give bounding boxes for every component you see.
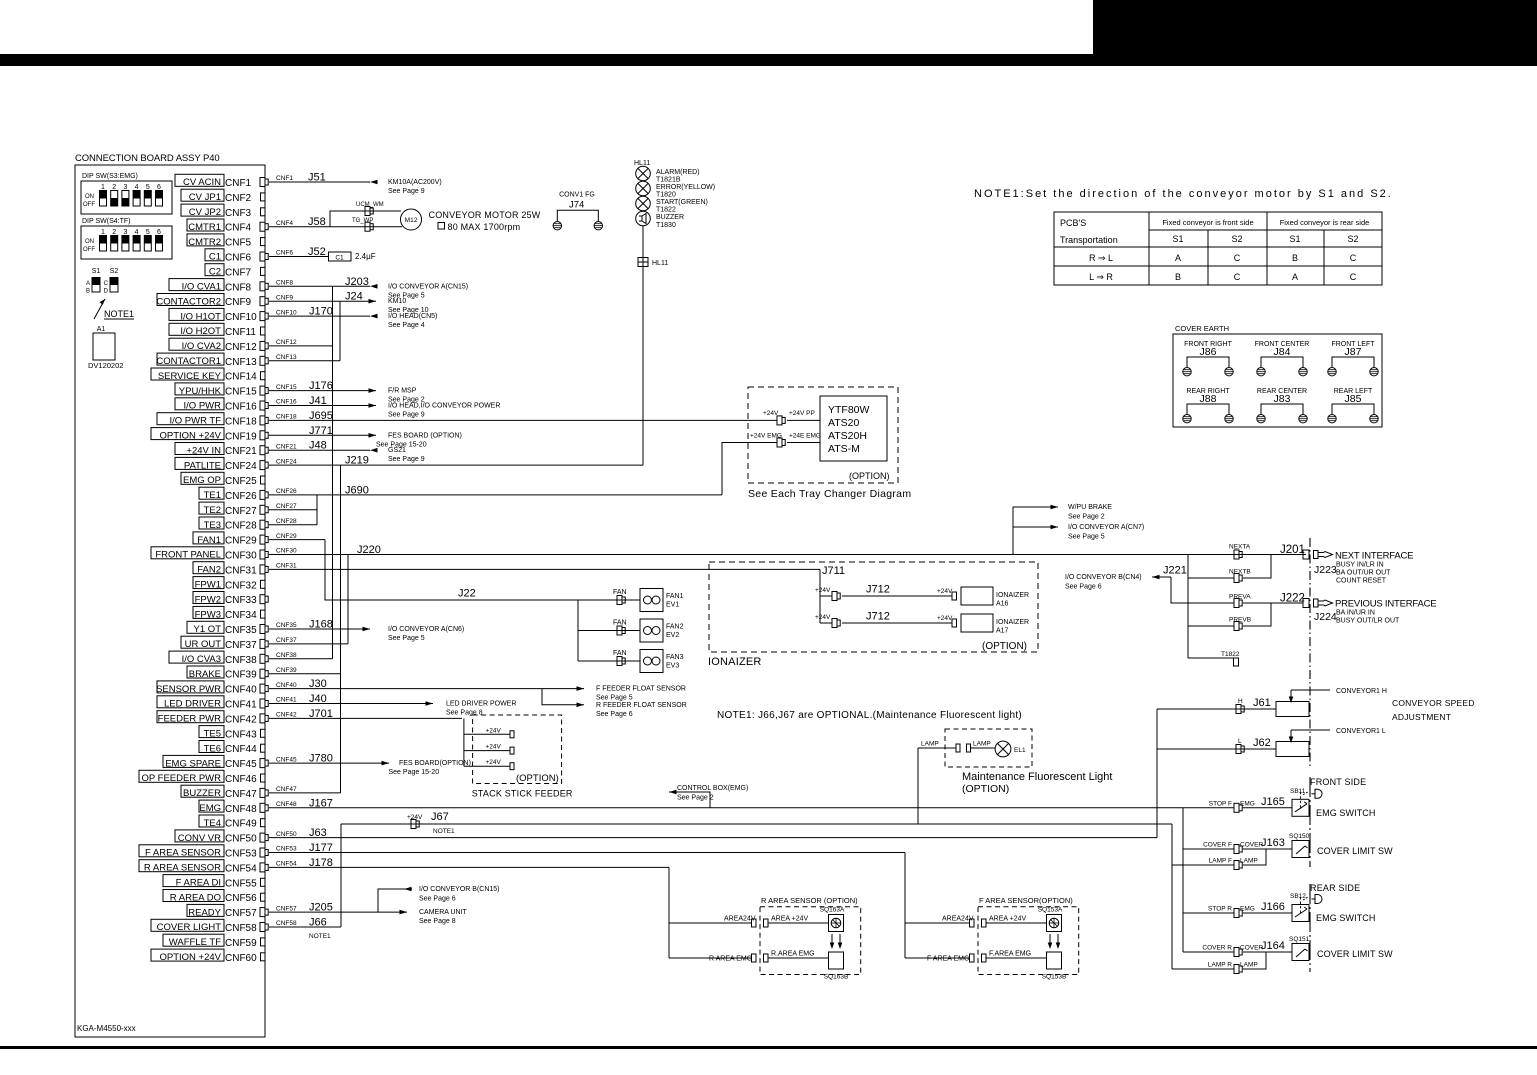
svg-text:J224: J224	[1314, 611, 1337, 623]
svg-text:CNF4: CNF4	[276, 220, 293, 227]
svg-text:YTF80W: YTF80W	[828, 404, 870, 416]
svg-text:See Page 6: See Page 6	[1065, 584, 1102, 591]
svg-text:CNF60: CNF60	[225, 953, 257, 964]
svg-text:J167: J167	[309, 797, 333, 809]
svg-text:OP FEEDER PWR: OP FEEDER PWR	[141, 773, 221, 784]
svg-text:+24V: +24V	[815, 587, 831, 594]
svg-text:TE3: TE3	[204, 520, 221, 531]
svg-text:LAMP: LAMP	[1240, 962, 1258, 969]
svg-text:EV1: EV1	[666, 602, 679, 609]
svg-text:T1830: T1830	[656, 222, 676, 229]
svg-text:EL1: EL1	[1014, 747, 1026, 754]
svg-text:CNF21: CNF21	[276, 443, 297, 450]
svg-text:See Page 9: See Page 9	[388, 412, 425, 419]
svg-text:J177: J177	[309, 842, 333, 854]
svg-text:I/O CONVEYOR A(CN15): I/O CONVEYOR A(CN15)	[388, 283, 468, 290]
svg-text:CNF26: CNF26	[276, 488, 297, 495]
svg-text:ATS20: ATS20	[828, 417, 859, 429]
svg-text:KGA-M4550-xxx: KGA-M4550-xxx	[77, 1024, 136, 1033]
svg-text:W/PU BRAKE: W/PU BRAKE	[1068, 504, 1112, 511]
svg-text:(OPTION): (OPTION)	[962, 783, 1009, 795]
svg-text:CNF26: CNF26	[225, 491, 257, 502]
svg-text:BUSY IN/LR IN: BUSY IN/LR IN	[1336, 562, 1384, 569]
svg-text:J83: J83	[1274, 393, 1291, 405]
svg-text:CNF6: CNF6	[225, 253, 252, 264]
svg-text:+24E EMG: +24E EMG	[789, 433, 821, 440]
svg-text:J222: J222	[1280, 593, 1305, 605]
svg-text:CNF8: CNF8	[225, 282, 252, 293]
svg-text:See Page 5: See Page 5	[388, 635, 425, 642]
svg-text:J165: J165	[1261, 796, 1285, 808]
svg-text:A: A	[1292, 272, 1298, 282]
svg-text:CNF30: CNF30	[225, 551, 257, 562]
svg-text:COVER F: COVER F	[1203, 842, 1232, 849]
svg-text:CONTACTOR2: CONTACTOR2	[156, 296, 221, 307]
svg-text:CV ACIN: CV ACIN	[183, 177, 221, 188]
svg-text:STOP R: STOP R	[1208, 906, 1232, 913]
svg-text:SQ153A: SQ153A	[1038, 907, 1063, 914]
svg-text:BRAKE: BRAKE	[189, 669, 221, 680]
svg-text:C: C	[1234, 272, 1241, 282]
svg-text:CNF57: CNF57	[225, 908, 257, 919]
svg-text:1: 1	[101, 229, 105, 236]
svg-text:CNF27: CNF27	[276, 503, 297, 510]
svg-text:FES BOARD(OPTION): FES BOARD(OPTION)	[399, 760, 471, 767]
svg-text:LAMP R: LAMP R	[1208, 962, 1232, 969]
svg-text:CNF32: CNF32	[225, 580, 257, 591]
svg-text:CNF30: CNF30	[276, 548, 297, 555]
svg-text:See Page 8: See Page 8	[419, 918, 456, 925]
svg-text:CNF29: CNF29	[276, 533, 297, 540]
svg-text:FAN: FAN	[613, 650, 627, 657]
svg-text:CNF53: CNF53	[276, 846, 297, 853]
svg-text:Transportation: Transportation	[1060, 235, 1118, 245]
svg-text:EV2: EV2	[666, 632, 679, 639]
svg-text:F AREA DI: F AREA DI	[176, 878, 221, 889]
svg-text:CONVEYOR MOTOR 25W: CONVEYOR MOTOR 25W	[429, 210, 541, 220]
svg-text:A16: A16	[996, 601, 1009, 608]
svg-text:CNF6: CNF6	[276, 250, 293, 257]
svg-text:A1: A1	[97, 326, 106, 333]
svg-text:See Page 2: See Page 2	[677, 795, 714, 802]
svg-text:CNF40: CNF40	[225, 685, 257, 696]
svg-text:J86: J86	[1200, 346, 1217, 358]
svg-text:OPTION +24V: OPTION +24V	[159, 952, 221, 963]
svg-text:C: C	[1234, 253, 1241, 263]
svg-text:CNF45: CNF45	[225, 759, 257, 770]
svg-text:CNF58: CNF58	[276, 920, 297, 927]
svg-text:I/O HEAD(CN5): I/O HEAD(CN5)	[388, 313, 437, 320]
svg-text:Y1 OT: Y1 OT	[194, 624, 222, 635]
svg-text:2: 2	[112, 184, 116, 191]
svg-text:F FEEDER FLOAT SENSOR: F FEEDER FLOAT SENSOR	[596, 686, 686, 693]
svg-text:See Page 15-20: See Page 15-20	[389, 769, 440, 776]
svg-text:CNF40: CNF40	[276, 682, 297, 689]
svg-text:BUZZER: BUZZER	[183, 788, 221, 799]
svg-text:3: 3	[123, 229, 127, 236]
svg-text:B: B	[1175, 272, 1181, 282]
svg-text:IONAIZER: IONAIZER	[996, 592, 1029, 599]
svg-text:I/O CVA3: I/O CVA3	[182, 654, 221, 665]
svg-text:NOTE1:Set the direction of the: NOTE1:Set the direction of the conveyor …	[974, 188, 1393, 200]
svg-text:NEXTB: NEXTB	[1229, 569, 1251, 576]
svg-text:COVER LIGHT: COVER LIGHT	[157, 922, 222, 933]
svg-text:EMG SWITCH: EMG SWITCH	[1316, 808, 1376, 818]
svg-text:I/O CONVEYOR A(CN6): I/O CONVEYOR A(CN6)	[388, 626, 464, 633]
svg-text:DIP SW(S4:TF): DIP SW(S4:TF)	[82, 218, 130, 225]
svg-text:CNF35: CNF35	[225, 625, 257, 636]
svg-text:D: D	[104, 289, 109, 295]
svg-text:J84: J84	[1274, 346, 1291, 358]
svg-text:J176: J176	[309, 380, 333, 392]
svg-text:CNF13: CNF13	[276, 354, 297, 361]
svg-text:CNF16: CNF16	[225, 402, 257, 413]
svg-text:80 MAX 1700rpm: 80 MAX 1700rpm	[448, 222, 521, 232]
svg-text:CNF38: CNF38	[276, 652, 297, 659]
svg-text:ADJUSTMENT: ADJUSTMENT	[1392, 712, 1451, 722]
svg-text:J170: J170	[309, 306, 333, 318]
svg-text:I/O CVA2: I/O CVA2	[182, 341, 221, 352]
svg-text:BA OUT/UR OUT: BA OUT/UR OUT	[1336, 570, 1391, 577]
svg-text:TG_WP: TG_WP	[352, 218, 373, 224]
svg-text:6: 6	[157, 229, 161, 236]
svg-text:See Page 6: See Page 6	[596, 711, 633, 718]
svg-text:T1822: T1822	[1221, 651, 1240, 658]
svg-text:CONTROL BOX(EMG): CONTROL BOX(EMG)	[677, 785, 748, 792]
svg-text:SB11: SB11	[1290, 788, 1306, 795]
svg-text:CNF50: CNF50	[225, 834, 257, 845]
svg-text:HL11: HL11	[652, 260, 668, 267]
svg-text:J205: J205	[309, 902, 333, 914]
svg-text:CNF15: CNF15	[225, 387, 257, 398]
svg-text:J712: J712	[866, 611, 890, 623]
svg-text:(OPTION): (OPTION)	[849, 471, 890, 481]
svg-text:START(GREEN): START(GREEN)	[656, 199, 708, 206]
svg-text:R AREA DO: R AREA DO	[170, 892, 221, 903]
svg-text:J66: J66	[309, 917, 327, 929]
svg-text:I/O CVA1: I/O CVA1	[182, 282, 221, 293]
svg-text:+24V: +24V	[937, 588, 953, 595]
svg-text:CNF50: CNF50	[276, 831, 297, 838]
svg-text:C1: C1	[209, 252, 221, 263]
svg-text:CV JP1: CV JP1	[189, 192, 221, 203]
svg-text:CNF41: CNF41	[225, 700, 257, 711]
svg-text:LAMP: LAMP	[973, 741, 991, 748]
svg-text:+24V PP: +24V PP	[789, 410, 815, 417]
svg-text:I/O CONVEYOR B(CN15): I/O CONVEYOR B(CN15)	[419, 886, 500, 893]
svg-text:C: C	[104, 281, 109, 287]
svg-text:CNF24: CNF24	[276, 458, 297, 465]
svg-text:CNF35: CNF35	[276, 622, 297, 629]
svg-text:WAFFLE TF: WAFFLE TF	[169, 937, 221, 948]
svg-text:CNF34: CNF34	[225, 610, 257, 621]
svg-text:CNF56: CNF56	[225, 893, 257, 904]
svg-text:J67: J67	[431, 811, 449, 823]
svg-text:CNF47: CNF47	[225, 789, 257, 800]
svg-text:Fixed conveyor is rear side: Fixed conveyor is rear side	[1280, 218, 1370, 227]
svg-text:I/O H2OT: I/O H2OT	[180, 326, 221, 337]
svg-text:ERROR(YELLOW): ERROR(YELLOW)	[656, 184, 715, 191]
svg-text:CNF53: CNF53	[225, 849, 257, 860]
svg-text:J201: J201	[1280, 544, 1305, 556]
svg-text:NEXTA: NEXTA	[1229, 544, 1251, 551]
svg-text:NOTE1: J66,J67 are OPTIONAL.(M: NOTE1: J66,J67 are OPTIONAL.(Maintenance…	[717, 710, 1022, 721]
svg-text:FAN2: FAN2	[666, 624, 684, 631]
svg-text:COVER EARTH: COVER EARTH	[1175, 324, 1229, 333]
svg-text:COUNT RESET: COUNT RESET	[1336, 578, 1387, 585]
svg-text:J690: J690	[345, 484, 369, 496]
svg-text:I/O CONVEYOR A(CN7): I/O CONVEYOR A(CN7)	[1068, 524, 1144, 531]
svg-text:CNF48: CNF48	[276, 801, 297, 808]
svg-text:J166: J166	[1261, 901, 1285, 913]
svg-text:J164: J164	[1261, 940, 1285, 952]
svg-text:CNF31: CNF31	[276, 563, 297, 570]
svg-text:COVER LIMIT SW: COVER LIMIT SW	[1317, 949, 1393, 959]
svg-text:J61: J61	[1253, 697, 1271, 709]
svg-text:B: B	[1292, 253, 1298, 263]
svg-text:CNF18: CNF18	[225, 416, 257, 427]
svg-text:2: 2	[112, 229, 116, 236]
svg-text:(OPTION): (OPTION)	[516, 773, 559, 784]
svg-text:F/R MSP: F/R MSP	[388, 388, 417, 395]
svg-text:CNF3: CNF3	[225, 208, 252, 219]
svg-text:SQ163A: SQ163A	[820, 907, 845, 914]
svg-text:FPW2: FPW2	[195, 594, 221, 605]
svg-text:SQ150: SQ150	[1289, 833, 1310, 840]
svg-text:T1821B: T1821B	[656, 177, 681, 184]
svg-text:J51: J51	[308, 172, 326, 184]
svg-text:CNF21: CNF21	[225, 446, 257, 457]
svg-text:CNF19: CNF19	[225, 431, 257, 442]
svg-text:CNF37: CNF37	[276, 637, 297, 644]
svg-text:See Page 5: See Page 5	[1068, 534, 1105, 541]
svg-text:TE4: TE4	[204, 818, 221, 829]
svg-text:S1: S1	[1172, 234, 1183, 244]
svg-text:CAMERA UNIT: CAMERA UNIT	[419, 909, 468, 916]
svg-text:UCM_WM: UCM_WM	[356, 202, 384, 208]
svg-text:J695: J695	[309, 410, 333, 422]
svg-text:+24V: +24V	[486, 744, 502, 751]
svg-text:4: 4	[135, 229, 139, 236]
svg-text:5: 5	[146, 229, 150, 236]
svg-text:CNF8: CNF8	[276, 280, 293, 287]
svg-text:CONTACTOR1: CONTACTOR1	[156, 356, 221, 367]
svg-text:H: H	[1238, 698, 1243, 705]
svg-text:FAN1: FAN1	[666, 593, 684, 600]
svg-text:Maintenance Fluorescent Light: Maintenance Fluorescent Light	[962, 771, 1112, 783]
svg-text:2.4μF: 2.4μF	[355, 252, 376, 261]
svg-text:CNF31: CNF31	[225, 565, 257, 576]
svg-text:CNF54: CNF54	[276, 861, 297, 868]
svg-text:YPU/HHK: YPU/HHK	[179, 386, 222, 397]
svg-text:L: L	[1238, 738, 1242, 745]
svg-text:See Page 5: See Page 5	[596, 695, 633, 702]
svg-text:CNF2: CNF2	[225, 193, 252, 204]
svg-text:CNF18: CNF18	[276, 414, 297, 421]
svg-text:OFF: OFF	[83, 202, 95, 208]
svg-text:L ⇒ R: L ⇒ R	[1089, 272, 1113, 282]
svg-text:EMG SPARE: EMG SPARE	[165, 758, 221, 769]
svg-text:C2: C2	[209, 267, 221, 278]
svg-text:CNF10: CNF10	[225, 312, 257, 323]
svg-text:ON: ON	[85, 239, 94, 245]
svg-text:PREVA: PREVA	[1229, 594, 1251, 601]
svg-text:TE1: TE1	[204, 490, 221, 501]
svg-text:CNF9: CNF9	[225, 297, 252, 308]
svg-text:COVER R: COVER R	[1202, 945, 1232, 952]
svg-text:(OPTION): (OPTION)	[982, 641, 1027, 652]
svg-text:CONV VR: CONV VR	[178, 833, 221, 844]
svg-text:SQ151: SQ151	[1289, 936, 1310, 943]
svg-text:I/O PWR: I/O PWR	[184, 401, 222, 412]
svg-text:A17: A17	[996, 628, 1009, 635]
svg-text:CNF24: CNF24	[225, 461, 257, 472]
svg-text:AREA +24V: AREA +24V	[989, 916, 1026, 923]
svg-text:SQ153B: SQ153B	[1042, 974, 1067, 981]
svg-text:J168: J168	[309, 619, 333, 631]
svg-text:J48: J48	[309, 440, 327, 452]
svg-text:PATLITE: PATLITE	[184, 460, 221, 471]
svg-text:EMG: EMG	[1240, 800, 1255, 807]
svg-text:See Each Tray Changer Diagram: See Each Tray Changer Diagram	[748, 488, 911, 500]
svg-text:+24V: +24V	[815, 614, 831, 621]
svg-text:J22: J22	[458, 588, 476, 600]
svg-text:PCB'S: PCB'S	[1060, 218, 1086, 228]
svg-text:C: C	[1350, 272, 1357, 282]
svg-text:IONAIZER: IONAIZER	[708, 656, 762, 668]
svg-text:CNF9: CNF9	[276, 294, 293, 301]
svg-text:J62: J62	[1253, 737, 1271, 749]
svg-text:CNF1: CNF1	[225, 178, 252, 189]
svg-text:NEXT INTERFACE: NEXT INTERFACE	[1335, 551, 1413, 562]
svg-text:CNF42: CNF42	[225, 714, 257, 725]
svg-text:IONAIZER: IONAIZER	[996, 619, 1029, 626]
svg-text:OFF: OFF	[83, 247, 95, 253]
svg-text:SENSOR PWR: SENSOR PWR	[156, 684, 221, 695]
svg-text:CNF15: CNF15	[276, 384, 297, 391]
svg-text:CNF41: CNF41	[276, 697, 297, 704]
svg-text:I/O HEAD,I/O CONVEYOR POWER: I/O HEAD,I/O CONVEYOR POWER	[388, 403, 500, 410]
svg-text:S2: S2	[1231, 234, 1242, 244]
svg-text:LAMP: LAMP	[921, 741, 939, 748]
svg-text:I/O PWR TF: I/O PWR TF	[169, 416, 221, 427]
svg-text:See Page 4: See Page 4	[388, 322, 425, 329]
svg-text:C: C	[1350, 253, 1357, 263]
svg-text:TE6: TE6	[204, 743, 221, 754]
svg-text:J219: J219	[345, 455, 369, 467]
svg-text:J780: J780	[309, 753, 333, 765]
svg-text:M12: M12	[405, 217, 418, 224]
svg-text:AREA +24V: AREA +24V	[771, 916, 808, 923]
svg-text:CNF49: CNF49	[225, 819, 257, 830]
svg-text:CNF58: CNF58	[225, 923, 257, 934]
svg-text:5: 5	[146, 184, 150, 191]
svg-text:J52: J52	[308, 246, 326, 258]
svg-text:FAN3: FAN3	[666, 654, 684, 661]
svg-text:CNF4: CNF4	[225, 223, 252, 234]
svg-text:CNF12: CNF12	[225, 342, 257, 353]
svg-text:J712: J712	[866, 584, 890, 596]
svg-text:Fixed conveyor is front side: Fixed conveyor is front side	[1162, 218, 1253, 227]
svg-text:J63: J63	[309, 827, 327, 839]
svg-text:CNF28: CNF28	[225, 521, 257, 532]
svg-text:CNF11: CNF11	[225, 327, 256, 338]
svg-text:A: A	[86, 281, 90, 287]
svg-text:J58: J58	[308, 216, 326, 228]
svg-text:CNF7: CNF7	[225, 267, 252, 278]
svg-text:PREVIOUS INTERFACE: PREVIOUS INTERFACE	[1335, 598, 1436, 609]
svg-text:R AREA SENSOR (OPTION): R AREA SENSOR (OPTION)	[761, 896, 858, 905]
svg-text:UR OUT: UR OUT	[185, 639, 222, 650]
svg-text:CNF14: CNF14	[225, 372, 257, 383]
svg-text:CNF13: CNF13	[225, 357, 257, 368]
svg-text:CNF54: CNF54	[225, 863, 257, 874]
svg-text:CNF47: CNF47	[276, 786, 297, 793]
svg-text:J771: J771	[309, 425, 333, 437]
svg-text:CONVEYOR1 H: CONVEYOR1 H	[1336, 688, 1387, 695]
svg-text:+24V IN: +24V IN	[186, 445, 221, 456]
svg-text:READY: READY	[188, 907, 221, 918]
svg-text:CNF45: CNF45	[276, 756, 297, 763]
svg-text:KM10: KM10	[388, 298, 406, 305]
svg-text:B: B	[86, 289, 90, 295]
svg-text:R FEEDER FLOAT SENSOR: R FEEDER FLOAT SENSOR	[596, 702, 687, 709]
svg-text:J223: J223	[1314, 564, 1337, 576]
svg-text:SERVICE KEY: SERVICE KEY	[158, 371, 222, 382]
svg-text:+24V: +24V	[763, 410, 779, 417]
svg-text:LAMP F: LAMP F	[1209, 858, 1232, 865]
svg-text:NOTE1: NOTE1	[309, 933, 331, 940]
svg-text:S2: S2	[1347, 234, 1358, 244]
svg-text:CMTR1: CMTR1	[188, 222, 221, 233]
svg-text:S1: S1	[92, 268, 101, 275]
svg-text:CNF16: CNF16	[276, 399, 297, 406]
svg-text:BUZZER: BUZZER	[656, 214, 684, 221]
svg-text:+24V: +24V	[486, 759, 502, 766]
svg-text:+24V EMG: +24V EMG	[750, 433, 782, 440]
svg-text:FEEDER PWR: FEEDER PWR	[158, 714, 221, 725]
svg-text:R ⇒ L: R ⇒ L	[1089, 253, 1113, 263]
svg-text:R AREA SENSOR: R AREA SENSOR	[144, 863, 221, 874]
svg-text:TE5: TE5	[204, 729, 221, 740]
svg-text:J40: J40	[309, 693, 327, 705]
svg-text:R AREA EMG: R AREA EMG	[709, 956, 752, 963]
svg-text:CNF44: CNF44	[225, 744, 257, 755]
svg-text:J711: J711	[822, 565, 845, 577]
svg-text:ATS20H: ATS20H	[828, 430, 867, 442]
svg-text:See Page 9: See Page 9	[388, 188, 425, 195]
svg-text:SB12: SB12	[1290, 893, 1306, 900]
svg-text:LAMP: LAMP	[1240, 858, 1258, 865]
svg-text:EMG SWITCH: EMG SWITCH	[1316, 913, 1376, 923]
svg-text:4: 4	[135, 184, 139, 191]
svg-text:T1822: T1822	[656, 207, 676, 214]
svg-text:See Page 9: See Page 9	[388, 456, 425, 463]
svg-text:CNF55: CNF55	[225, 878, 257, 889]
svg-text:J87: J87	[1345, 346, 1362, 358]
svg-text:CONVEYOR1 L: CONVEYOR1 L	[1336, 728, 1386, 735]
svg-text:CNF39: CNF39	[225, 670, 257, 681]
svg-text:GS21: GS21	[388, 447, 406, 454]
svg-text:CNF28: CNF28	[276, 518, 297, 525]
svg-text:CNF39: CNF39	[276, 667, 297, 674]
svg-text:LED DRIVER: LED DRIVER	[164, 699, 221, 710]
svg-text:+24V: +24V	[937, 615, 953, 622]
svg-text:J88: J88	[1200, 393, 1217, 405]
svg-text:CNF27: CNF27	[225, 506, 257, 517]
svg-text:CNF12: CNF12	[276, 339, 297, 346]
svg-text:CNF57: CNF57	[276, 905, 297, 912]
